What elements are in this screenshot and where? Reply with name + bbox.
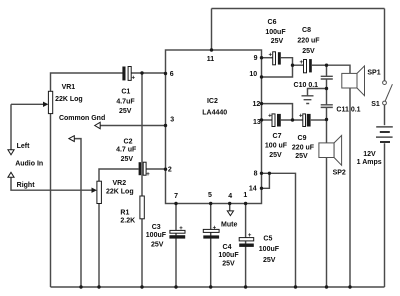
node C7-C9 junction [291,118,294,121]
wire VR2 top to C2 [99,169,139,181]
wire pin 12 down to C7/C9 node [262,104,293,120]
capacitor C10 plates [321,76,333,79]
wire lower common arrow to ground bus [74,139,81,287]
wire VR1 bottom to ground bus [50,114,52,287]
node bus VR2 [97,285,100,288]
svg-text:1 Amps: 1 Amps [357,159,382,166]
potentiometer VR1 body [48,91,52,113]
wire C7 to C9 [281,119,303,121]
svg-text:C4: C4 [223,244,232,251]
svg-text:C5: C5 [263,236,272,243]
svg-text:220 uF: 220 uF [297,38,320,45]
switch S1 [383,81,393,105]
wire left input to VR1 wiper [11,103,43,105]
wire C1 to pin 6 [131,72,165,74]
svg-text:+: + [299,60,303,66]
svg-text:+: + [179,226,183,232]
capacitor C7 [268,113,281,126]
wire SP2 bottom to ground bus [326,158,328,288]
node pin 11 [210,48,213,51]
svg-text:VR2: VR2 [112,180,126,187]
wire VR2 bottom to ground bus [98,204,100,288]
svg-text:10: 10 [249,71,257,78]
svg-text:2.2K: 2.2K [120,217,135,224]
svg-text:+: + [299,113,303,119]
node common-gnd open arrow [95,122,101,128]
wire pin 7 to bus through C3 [175,204,177,288]
svg-text:25V: 25V [302,48,315,55]
svg-text:11: 11 [207,56,215,63]
svg-text:C9: C9 [298,135,307,142]
capacitor C6 [269,52,281,65]
node bus pin8 drop [294,285,297,288]
svg-text:4.7uF: 4.7uF [116,99,135,106]
wire C9 to channel-2 node [311,119,327,121]
wire vertical column from C1 node down to R1 [141,73,143,196]
node pin 13 [260,118,263,121]
node bus C4 [209,285,212,288]
node lower common open arrow [69,136,74,142]
capacitor C2 [139,162,151,178]
node channel-1 output [325,63,328,66]
svg-text:+: + [248,233,252,239]
svg-text:IC2: IC2 [207,98,218,105]
wire R1 bottom to ground bus [141,219,143,287]
svg-text:13: 13 [253,119,261,126]
capacitor C5 [239,233,254,247]
potentiometer VR2 body [97,181,102,203]
svg-text:25V: 25V [222,261,235,268]
wire battery to ground bus [384,143,386,287]
wire right input drop and run to VR2 wiper [11,177,92,190]
node bus C3 [174,285,177,288]
svg-text:3: 3 [170,117,174,124]
capacitor C1 [122,67,135,82]
svg-text:4: 4 [228,193,232,200]
node left input open arrow [8,150,14,155]
svg-text:25V: 25V [295,153,308,160]
wire pin 4 mute stub [229,204,231,211]
svg-text:100uF: 100uF [146,232,167,239]
wire pin 1 to bus through C5 [245,204,247,288]
capacitor C8 [299,59,311,73]
svg-text:C3: C3 [152,224,161,231]
svg-text:Mute: Mute [221,221,237,228]
battery B1 long plates [376,127,393,137]
svg-text:25V: 25V [263,257,276,264]
wire right supply drop to switch [384,9,386,81]
wire link pin 8 to pin 14 [262,173,270,188]
node bus C5 [244,285,247,288]
node C8 branch junction [291,63,294,66]
node bus SP2 [325,285,328,288]
svg-text:+: + [131,76,135,82]
potentiometer VR1 wiper arrow [43,102,48,107]
capacitor C3 [169,226,185,239]
wire midpoint node to C11 [326,89,328,105]
svg-text:Left: Left [17,143,31,150]
resistor R1 body [140,196,144,219]
svg-text:S1: S1 [371,101,380,108]
capacitor C4 [203,226,219,239]
capacitor C11 plates [321,105,333,108]
svg-text:C7: C7 [273,133,282,140]
svg-text:Common Gnd: Common Gnd [59,115,105,122]
speaker SP2 [319,135,342,165]
node right input open arrow [8,172,14,177]
wire top supply bus [212,8,385,10]
svg-text:+: + [269,53,273,59]
svg-text:C1: C1 [121,88,130,95]
node bus R1 [140,285,143,288]
svg-text:LA4440: LA4440 [202,110,227,117]
svg-text:SP2: SP2 [333,169,346,176]
node bus SP1 [348,285,351,288]
node C1 output junction [140,71,143,74]
battery B1 short thick plates [380,131,390,143]
wire SP1 bottom to ground bus [349,88,351,287]
svg-text:C6: C6 [268,19,277,26]
wire switch to battery [384,105,386,125]
speaker SP1 [342,66,365,96]
node pin 6 [164,72,167,75]
svg-text:9: 9 [254,55,258,62]
svg-text:22K Log: 22K Log [55,96,83,103]
node pin 10 [260,75,263,78]
svg-text:22K Log: 22K Log [106,188,134,195]
node pin 14 [260,187,263,190]
svg-text:25V: 25V [151,241,164,248]
wire midpoint node to ground symbol [308,89,327,96]
wire left input drop [10,104,12,149]
svg-text:C10 0.1: C10 0.1 [294,82,319,89]
wire common gnd line to pin 3 [100,125,166,127]
wire pin 5 to bus through C4 [210,204,212,288]
node pin 9 [260,56,263,59]
svg-text:25V: 25V [271,38,284,45]
node pin8-14 link [268,172,271,175]
svg-text:25V: 25V [269,152,282,159]
node pin 5 [209,202,212,205]
wire pin 9 to C6 [262,57,273,59]
svg-text:2: 2 [168,167,172,174]
svg-text:6: 6 [170,71,174,78]
svg-text:+: + [146,172,150,178]
svg-text:Audio In: Audio In [15,161,43,168]
svg-text:100uF: 100uF [265,29,286,36]
capacitor C9 [299,113,311,126]
wire pin 8 to ground drop [262,173,296,287]
svg-text:12: 12 [253,101,261,108]
svg-text:+: + [213,226,217,232]
svg-text:C2: C2 [124,139,133,146]
wire output node to SP1 [327,65,351,73]
wire node to C10 [326,65,328,76]
node pin 1 [244,202,247,205]
svg-text:C8: C8 [302,27,311,34]
svg-text:25V: 25V [119,108,132,115]
svg-text:8: 8 [254,171,258,178]
svg-text:C11 0.1: C11 0.1 [336,106,360,113]
op-amp IC2 LA4440 body [166,50,262,204]
svg-text:VR1: VR1 [62,84,76,91]
svg-text:R1: R1 [120,210,129,217]
svg-text:100 uF: 100 uF [265,143,288,150]
svg-text:5: 5 [208,192,212,199]
node pin 4 [228,202,231,205]
svg-text:SP1: SP1 [367,70,380,77]
svg-text:100uF: 100uF [218,252,239,259]
svg-text:14: 14 [249,185,257,192]
wire C8 to output node [312,64,327,66]
wire branch to C8 [293,64,304,66]
ground symbol [302,96,314,104]
node bus gnd-arrow [79,285,82,288]
svg-text:1: 1 [243,192,247,199]
wire VR1 top to C1 [51,73,123,91]
node pin 7 [174,202,177,205]
svg-text:100uF: 100uF [259,246,280,253]
svg-text:+: + [268,113,272,119]
node channel-2 output [325,118,328,121]
node mute open arrow [227,211,233,216]
wire C10 to midpoint node [326,79,328,89]
node pin 2 [164,168,167,171]
wire pin 11 to top bus [211,9,213,51]
svg-text:4.7 uF: 4.7 uF [116,146,137,153]
ground bus bottom [51,286,385,288]
wire C6 around to pin 10 [262,58,293,77]
svg-text:12V: 12V [363,151,376,158]
node pin 8 [260,172,263,175]
svg-text:25V: 25V [121,156,134,163]
wire C2 to pin 2 [146,168,165,170]
svg-text:220 uF: 220 uF [292,145,315,152]
wire C11 to channel-2 node and SP2 [326,108,328,143]
potentiometer VR2 wiper arrow [92,188,97,193]
node zobel midpoint [325,87,328,90]
svg-text:Right: Right [17,182,36,189]
node pin 12 [260,102,263,105]
svg-text:7: 7 [174,193,178,200]
node pin 3 [164,124,167,127]
wire pin 13 to C7 [262,119,273,121]
